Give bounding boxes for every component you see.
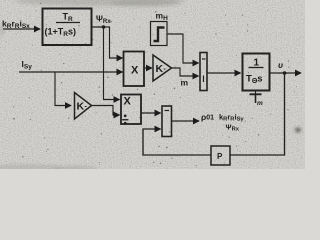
wire iSy branch down to gain K1 (55, 72, 71, 106)
block P pole pairs (211, 146, 230, 165)
step source symbol mH (151, 22, 168, 46)
svg-text:X: X (124, 96, 132, 108)
input label iSy (22, 59, 33, 71)
paper background (0, 0, 305, 169)
summing junction S2 (162, 106, 172, 137)
svg-text:m: m (257, 100, 263, 107)
wire X2 output to summer S2 (141, 112, 161, 114)
wire PsiRx branch to multiplier X1 (110, 27, 123, 58)
label mH load torque (156, 11, 169, 23)
multiplier block X1 (124, 52, 145, 87)
wire P output to summer S2 (143, 129, 211, 155)
svg-text:υ: υ (278, 60, 283, 70)
gain triangle K2 torque constant (153, 55, 172, 81)
wire X1 output (144, 67, 152, 69)
gain triangle K1 (75, 93, 92, 120)
wire iSy (19, 71, 123, 73)
wire acceleration torque to integrator (207, 72, 241, 74)
wire speed feedback down (230, 73, 285, 155)
svg-text:P: P (217, 152, 223, 161)
label PsiRx (96, 14, 111, 26)
svg-text:K: K (77, 101, 85, 113)
wire torque m to summer (172, 68, 199, 76)
wire PsiRx bus down to divider (104, 27, 120, 100)
label m (181, 78, 189, 88)
block B2 mechanical integrator 1/(TOs) (243, 54, 270, 91)
label slip fraction kR rR iSy / PsiRx (219, 113, 244, 133)
wire field frequency output (172, 120, 200, 122)
wire mH to summer (167, 34, 199, 63)
wire speed output (270, 72, 302, 74)
svg-text:K: K (156, 63, 164, 75)
divider block X2 (121, 95, 141, 125)
parameter tick Tm below integrator (255, 91, 257, 94)
node PsiRx junction (102, 25, 106, 29)
wire K1 output to divider lower input (92, 106, 120, 116)
svg-text:(1+TRs): (1+TRs) (45, 27, 76, 39)
block B1 flux transfer TR/(1+TRs) (43, 9, 92, 46)
node speed junction (283, 71, 287, 75)
scan smudges (0, 0, 301, 173)
scan pepper noise (6, 3, 299, 167)
wire input iSx (3, 28, 40, 30)
input label kR rR iSx (2, 19, 30, 31)
summing junction S1 (200, 53, 207, 91)
label v speed (278, 60, 283, 70)
label rho01 (201, 112, 214, 122)
wire PsiRx output (92, 26, 110, 28)
svg-text:m: m (181, 78, 189, 88)
svg-text:X: X (131, 65, 139, 77)
